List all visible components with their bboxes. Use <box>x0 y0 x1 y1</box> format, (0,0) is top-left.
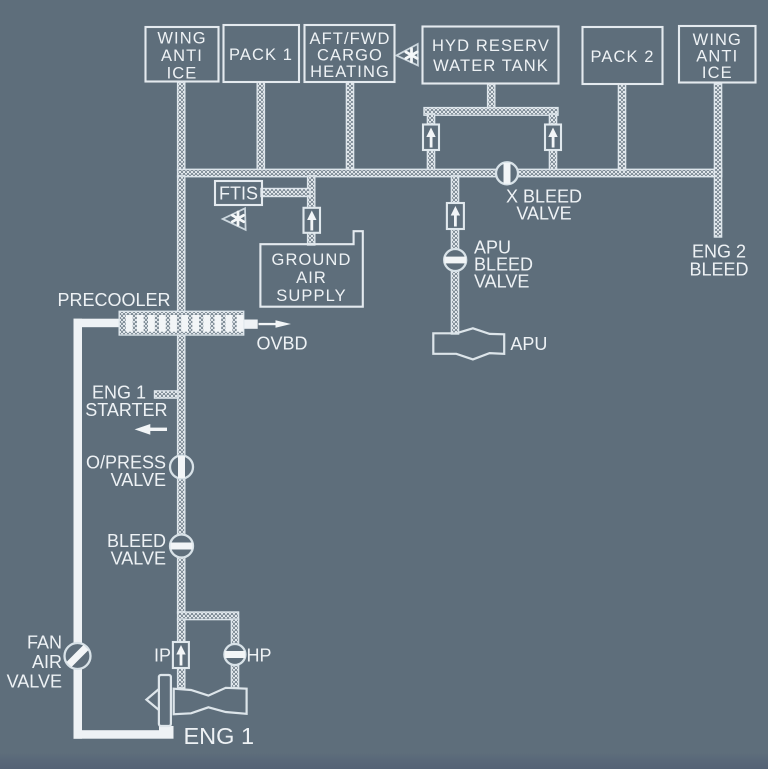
box FTIS <box>215 181 262 205</box>
ground air supply outline <box>260 231 362 307</box>
wire HYD tank drop <box>488 84 495 109</box>
svg-text:VALVE: VALVE <box>474 272 529 292</box>
wire fan air solid vertical <box>74 319 83 739</box>
svg-text:VALVE: VALVE <box>7 672 62 692</box>
check valve APU <box>447 203 464 229</box>
svg-text:FTIS: FTIS <box>219 184 258 204</box>
wire WAI2 / ENG2 bleed riser <box>714 84 721 237</box>
wire CARGO drop <box>346 82 353 170</box>
box PACK 2 <box>583 27 663 84</box>
wire fan air solid bottom <box>74 730 174 739</box>
svg-text:APU: APU <box>510 334 547 354</box>
svg-text:WING: WING <box>693 31 742 49</box>
svg-text:ICE: ICE <box>167 65 198 83</box>
wire PACK1 drop <box>257 82 264 170</box>
IP label <box>154 646 171 666</box>
wire HYD header <box>424 108 558 116</box>
svg-text:WATER TANK: WATER TANK <box>433 57 549 75</box>
wire OVBD stub <box>244 320 258 329</box>
FAN AIR VALVE label <box>7 633 62 692</box>
box PACK 1 <box>224 25 300 82</box>
HP label <box>247 646 272 666</box>
svg-text:STARTER: STARTER <box>85 400 167 420</box>
wire crossbleed bus <box>178 169 722 176</box>
fan air valve <box>65 643 91 669</box>
ENG 1 label <box>184 723 255 749</box>
svg-text:IP: IP <box>154 646 171 666</box>
OVBD label <box>257 334 308 354</box>
APU bleed valve <box>444 249 466 271</box>
svg-text:SUPPLY: SUPPLY <box>276 287 347 305</box>
wire APU branch upper <box>451 176 458 204</box>
svg-text:VALVE: VALVE <box>111 549 166 569</box>
svg-text:ANTI: ANTI <box>161 47 203 65</box>
box WING ANTI ICE left <box>146 27 219 83</box>
ENG 1 STARTER label <box>85 382 167 420</box>
svg-text:VALVE: VALVE <box>111 470 166 490</box>
wire APU branch lower <box>451 269 458 334</box>
wire CV2 stub up <box>549 114 556 125</box>
precooler <box>119 311 244 335</box>
svg-text:AIR: AIR <box>296 269 327 287</box>
HP valve <box>224 644 245 665</box>
svg-text:ENG 1: ENG 1 <box>184 723 255 749</box>
wire FTIS stub <box>261 189 310 197</box>
svg-text:PACK 1: PACK 1 <box>229 46 293 64</box>
svg-text:PRECOOLER: PRECOOLER <box>58 290 171 310</box>
box AFT/FWD CARGO HEATING <box>305 25 395 82</box>
APU BLEED VALVE label <box>474 238 533 292</box>
wire IP-HP branch horizontal <box>178 612 239 620</box>
check valve CV1 <box>423 125 439 151</box>
wire main riser below bleed valve <box>178 557 185 613</box>
wire PACK2 drop <box>618 84 625 170</box>
starter arrow <box>135 424 167 435</box>
wire APU branch mid <box>451 228 458 249</box>
APU symbol <box>433 328 504 359</box>
wire IP drop <box>178 619 185 642</box>
check valve ground air <box>304 208 321 233</box>
svg-text:HP: HP <box>247 646 272 666</box>
wire main riser mid <box>178 176 185 312</box>
svg-text:ANTI: ANTI <box>696 48 738 66</box>
svg-text:BLEED: BLEED <box>689 260 748 280</box>
wire main riser below precooler <box>178 335 185 456</box>
O/PRESS VALVE label <box>86 453 166 491</box>
wire fan air solid top <box>74 319 120 328</box>
svg-text:ICE: ICE <box>702 64 733 82</box>
svg-text:OVBD: OVBD <box>257 334 308 354</box>
wire main riser between valves <box>178 478 185 535</box>
wire starter stub <box>155 391 179 398</box>
box WING ANTI ICE right <box>679 26 756 83</box>
svg-text:ENG 2: ENG 2 <box>692 242 746 262</box>
O/PRESS valve <box>170 456 193 479</box>
wire IP lower <box>178 668 185 688</box>
wire CV2 stub down <box>549 149 556 170</box>
wire ground air riser <box>308 176 315 209</box>
check valve CV2 <box>545 125 561 151</box>
bottom dark strip <box>0 753 768 769</box>
svg-text:WING: WING <box>157 30 206 48</box>
svg-text:FAN: FAN <box>27 633 62 653</box>
APU label <box>510 334 547 354</box>
svg-text:HEATING: HEATING <box>310 63 390 81</box>
bleed valve <box>170 535 193 558</box>
svg-text:AIR: AIR <box>32 652 62 672</box>
svg-text:CARGO: CARGO <box>317 47 383 65</box>
ENG 2 BLEED label <box>689 242 748 280</box>
wire HP lower <box>231 665 238 688</box>
BLEED VALVE label <box>107 531 166 569</box>
wire ground air stub <box>308 231 315 245</box>
svg-text:GROUND: GROUND <box>272 251 352 269</box>
svg-text:AFT/FWD: AFT/FWD <box>309 30 390 48</box>
wire engine fan stub <box>159 726 174 737</box>
svg-text:VALVE: VALVE <box>516 204 571 224</box>
wire CV1 stub down <box>427 149 434 170</box>
box HYD RESERV WATER TANK <box>423 27 559 84</box>
wire HP drop <box>231 619 238 645</box>
OVBD arrow <box>259 320 292 328</box>
engine ENG1 symbol <box>146 675 246 726</box>
check valve IP <box>173 642 189 668</box>
PRECOOLER label <box>58 290 171 310</box>
svg-text:PACK 2: PACK 2 <box>590 48 654 66</box>
wire WAI1 drop / main riser top <box>178 82 185 170</box>
X BLEED VALVE label <box>506 187 582 224</box>
wire CV1 stub up <box>427 114 434 125</box>
fan symbol below FTIS <box>223 208 246 230</box>
svg-text:HYD RESERV: HYD RESERV <box>432 37 550 55</box>
X bleed valve <box>496 162 518 184</box>
fan symbol near cargo box <box>397 44 418 66</box>
